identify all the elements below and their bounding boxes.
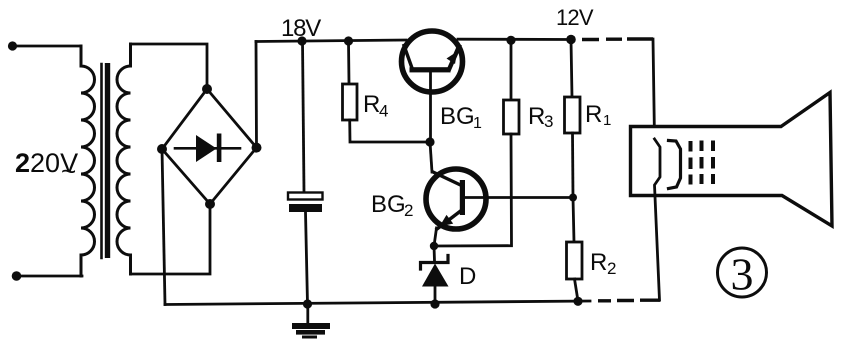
resistor R3 bbox=[504, 100, 520, 134]
wire top input bbox=[13, 45, 82, 48]
svg-text:2: 2 bbox=[404, 201, 413, 220]
wire R1 top lead bbox=[571, 40, 572, 97]
node BG1 base junction bbox=[425, 137, 434, 146]
node R3 top bbox=[506, 36, 515, 45]
svg-text:~: ~ bbox=[61, 156, 76, 186]
svg-text:3: 3 bbox=[544, 112, 553, 131]
svg-text:1: 1 bbox=[473, 115, 482, 132]
wire dashed 12V to speaker bbox=[582, 37, 653, 41]
wire secondary top to bridge top vertex bbox=[131, 44, 208, 89]
wire R3 top lead bbox=[510, 41, 513, 100]
resistor R2 bbox=[567, 242, 583, 279]
wire dashed ground to speaker bbox=[598, 299, 660, 303]
node zener anode bbox=[430, 299, 439, 308]
svg-text:4: 4 bbox=[379, 102, 388, 121]
svg-text:R: R bbox=[585, 101, 602, 128]
svg-text:1: 1 bbox=[603, 112, 611, 129]
wire BG1 base lead bbox=[429, 73, 432, 142]
svg-text:BG: BG bbox=[440, 103, 475, 130]
wire R1 bottom lead bbox=[571, 133, 574, 198]
transformer core bbox=[100, 64, 103, 258]
speaker gap dashes bbox=[691, 141, 714, 185]
node BG2 emitter bbox=[430, 242, 438, 250]
wire 18V rail left section bbox=[256, 40, 406, 42]
wire capacitor column upper bbox=[303, 41, 305, 192]
bridge rectifier diamond bbox=[162, 89, 257, 204]
wire BG2 emitter lead bbox=[434, 228, 437, 246]
zener diode D bbox=[433, 246, 436, 261]
node R1 top (12V) bbox=[566, 35, 576, 45]
wire bridge left vertex to ground rail bbox=[162, 149, 165, 305]
diode D0 inside bridge bbox=[175, 147, 240, 150]
node R2 bottom bbox=[573, 297, 582, 306]
node BG2 base junction bbox=[569, 194, 577, 202]
ground symbol bbox=[306, 304, 309, 322]
capacitor C1 bbox=[288, 193, 323, 200]
node bridge bottom bbox=[205, 199, 215, 209]
wire R2 top lead bbox=[573, 198, 574, 243]
transistor BG2 bbox=[426, 169, 486, 229]
resistor R4 bbox=[343, 84, 358, 120]
wire capacitor column lower bbox=[306, 212, 308, 304]
svg-text:12V: 12V bbox=[556, 5, 594, 30]
svg-text:R: R bbox=[590, 249, 607, 276]
speaker LS body bbox=[631, 93, 833, 227]
node ground at cap bbox=[303, 299, 312, 308]
node bridge right bbox=[252, 143, 262, 153]
figure number 3 circle bbox=[718, 248, 767, 297]
wire R2 bottom lead bbox=[575, 279, 579, 301]
transformer T1 primary winding bbox=[81, 46, 95, 276]
node filter cap top bbox=[297, 36, 306, 45]
svg-text:R: R bbox=[363, 91, 380, 118]
speaker voice coil wire through driver bbox=[655, 139, 661, 300]
wire BG2 collector lead bbox=[430, 142, 432, 172]
svg-text:BG: BG bbox=[371, 191, 406, 218]
input terminal top bbox=[8, 41, 17, 50]
svg-text:3: 3 bbox=[731, 249, 754, 300]
speaker bracket bbox=[669, 141, 681, 189]
wire BG2 base bbox=[464, 196, 573, 199]
node bridge left bbox=[157, 144, 167, 154]
wire bridge right vertex to 18V rail bbox=[255, 42, 258, 148]
wire speaker column top bbox=[653, 39, 655, 139]
wire bottom input bbox=[17, 275, 83, 278]
transistor BG1 bbox=[402, 31, 463, 92]
node R4 top bbox=[344, 36, 353, 45]
svg-text:18V: 18V bbox=[281, 15, 321, 42]
input terminal bottom bbox=[12, 271, 22, 281]
wire R4 top lead bbox=[347, 41, 350, 84]
wire secondary bottom to bridge bottom vertex bbox=[131, 204, 211, 274]
wire R4 bottom lead to BG1 base node bbox=[350, 120, 430, 142]
node bridge top bbox=[202, 84, 212, 94]
wire 18V rail right section bbox=[458, 38, 573, 41]
wire R3 bottom lead to zener node bbox=[434, 134, 512, 246]
svg-text:R: R bbox=[528, 103, 545, 130]
wire ground rail bbox=[165, 301, 590, 305]
svg-text:D: D bbox=[459, 263, 476, 290]
transformer T1 secondary winding bbox=[117, 44, 130, 274]
resistor R1 bbox=[565, 97, 581, 133]
svg-text:2: 2 bbox=[607, 259, 616, 278]
